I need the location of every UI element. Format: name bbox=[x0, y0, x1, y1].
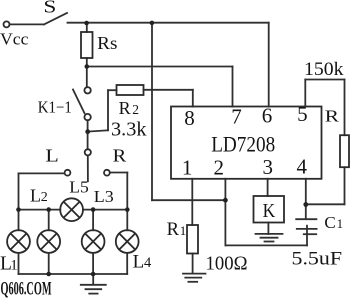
svg-text:L: L bbox=[45, 146, 58, 166]
svg-text:2: 2 bbox=[214, 155, 225, 179]
svg-text:L3: L3 bbox=[94, 187, 114, 206]
svg-text:1: 1 bbox=[180, 223, 187, 238]
svg-text:4: 4 bbox=[144, 255, 152, 271]
svg-text:R: R bbox=[325, 106, 340, 125]
svg-text:L5: L5 bbox=[69, 178, 89, 197]
svg-text:2: 2 bbox=[132, 102, 139, 117]
svg-text:5: 5 bbox=[297, 102, 308, 126]
svg-text:4: 4 bbox=[297, 154, 308, 178]
svg-text:3.3k: 3.3k bbox=[111, 118, 147, 140]
svg-text:100Ω: 100Ω bbox=[206, 253, 248, 274]
svg-text:K: K bbox=[263, 200, 276, 222]
svg-text:LD7208: LD7208 bbox=[211, 131, 275, 156]
svg-text:1: 1 bbox=[182, 156, 193, 180]
svg-text:S: S bbox=[43, 0, 56, 16]
svg-text:1: 1 bbox=[10, 257, 17, 273]
svg-text:5.5uF: 5.5uF bbox=[292, 249, 343, 269]
svg-text:K1−1: K1−1 bbox=[38, 98, 72, 117]
svg-text:2: 2 bbox=[41, 190, 48, 205]
svg-text:7: 7 bbox=[231, 105, 242, 129]
svg-text:R: R bbox=[113, 146, 127, 166]
svg-text:3: 3 bbox=[263, 155, 274, 179]
svg-text:6: 6 bbox=[262, 104, 273, 128]
svg-text:C: C bbox=[324, 213, 335, 232]
svg-text:8: 8 bbox=[184, 106, 195, 130]
svg-text:Rs: Rs bbox=[97, 33, 117, 53]
svg-text:Q606.COM: Q606.COM bbox=[1, 278, 52, 299]
svg-text:R: R bbox=[119, 98, 131, 118]
svg-text:L: L bbox=[133, 251, 145, 272]
svg-text:L: L bbox=[30, 185, 41, 205]
svg-text:Vcc: Vcc bbox=[0, 30, 29, 49]
svg-text:R: R bbox=[167, 220, 180, 240]
svg-text:1: 1 bbox=[337, 216, 344, 231]
svg-text:150k: 150k bbox=[304, 60, 344, 80]
